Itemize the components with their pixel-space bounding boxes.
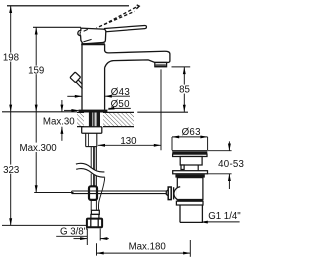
spout bbox=[105, 51, 170, 68]
rod clamp bbox=[89, 186, 97, 200]
pivot detail dashes bbox=[84, 29, 88, 31]
drain upper body bbox=[180, 157, 202, 171]
svg-text:G1 1/4": G1 1/4" bbox=[208, 211, 241, 222]
column right edge upper bbox=[104, 44, 106, 51]
svg-text:40-53: 40-53 bbox=[218, 159, 244, 170]
extension line rod level (Max.300 ref) bbox=[34, 192, 73, 194]
rod + hose (below break) bbox=[91, 174, 105, 211]
dimension Ø50 bbox=[64, 99, 131, 112]
svg-text:85: 85 bbox=[179, 85, 190, 96]
dimension Max.180 bbox=[97, 240, 191, 257]
rod ball joint at drain bbox=[166, 187, 180, 201]
svg-text:Ø63: Ø63 bbox=[182, 127, 201, 138]
dimension 159 bbox=[28, 27, 44, 112]
dimension Max.30 (counter thickness) bbox=[43, 100, 75, 141]
aerator bbox=[155, 62, 167, 66]
svg-text:Max.300: Max.300 bbox=[20, 143, 58, 154]
extension line countertop left bbox=[2, 111, 77, 113]
label G1 1/4" bbox=[201, 211, 242, 223]
svg-text:198: 198 bbox=[3, 53, 19, 64]
lever pivot block bbox=[78, 28, 106, 44]
drain flange top bbox=[172, 151, 208, 157]
base plate bbox=[79, 110, 108, 113]
G3/8 nut bbox=[87, 219, 102, 228]
label G 3/8" bbox=[56, 227, 109, 246]
locknut under counter bbox=[82, 127, 102, 133]
dimension 323 bbox=[3, 112, 19, 226]
drain main body bbox=[177, 178, 203, 200]
body top edge bbox=[81, 43, 105, 45]
dimension 40-53 bbox=[208, 141, 244, 189]
svg-text:Max.30: Max.30 bbox=[43, 117, 75, 128]
svg-text:Ø50: Ø50 bbox=[111, 99, 131, 110]
raised lever (dashed) bbox=[97, 7, 138, 28]
shank tube bbox=[86, 133, 97, 146]
drain collar bbox=[173, 171, 208, 174]
extension line lever top (159 ref) bbox=[33, 26, 81, 28]
lever arm bbox=[105, 25, 147, 31]
svg-text:Ø43: Ø43 bbox=[111, 87, 130, 98]
column right edge lower bbox=[104, 68, 106, 110]
column left edge bbox=[81, 44, 83, 110]
drain tailpiece bbox=[180, 205, 203, 222]
svg-text:323: 323 bbox=[3, 165, 19, 176]
side knob bbox=[70, 72, 82, 89]
dimension Ø43 bbox=[67, 87, 130, 98]
drain washer bbox=[175, 174, 204, 177]
hose fitting collars bbox=[91, 210, 99, 214]
extension line hose end (323 ref) bbox=[2, 224, 86, 226]
dimension 85 bbox=[172, 67, 191, 112]
extension line countertop right bbox=[137, 111, 188, 113]
horizontal pop-up rod bbox=[72, 191, 167, 194]
break symbol bbox=[76, 163, 105, 177]
pivot inner arc bbox=[79, 32, 82, 36]
faucet shank slot through counter bbox=[84, 112, 103, 128]
extension line top (raised lever height ref) bbox=[7, 5, 129, 7]
dimension 198 bbox=[3, 6, 19, 112]
dimension Max.300 bbox=[20, 112, 58, 193]
dimension 130 bbox=[98, 69, 161, 150]
pop-up rod + hose (above break) bbox=[91, 147, 96, 171]
svg-text:159: 159 bbox=[28, 65, 44, 76]
drain bottom flange bbox=[176, 200, 203, 206]
countertop hatch bbox=[77, 112, 134, 126]
drain: Ø63 extension lines bbox=[171, 137, 173, 150]
svg-text:Max.180: Max.180 bbox=[129, 242, 167, 253]
svg-text:130: 130 bbox=[120, 136, 137, 147]
dimension Ø63 bbox=[172, 127, 208, 138]
